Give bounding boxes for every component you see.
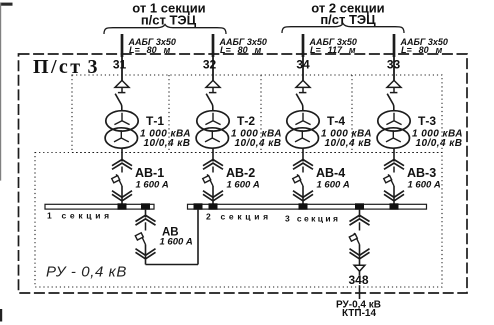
- busbar sections 2-3 (0.4 kV): [188, 204, 427, 209]
- svg-text:1 секция: 1 секция: [47, 211, 113, 221]
- draw-out contact (lower) of АВ-1: [112, 191, 132, 201]
- draw-out contact (lower) of АВ-2: [203, 191, 223, 201]
- wire: breaker АВ-2 to busbar: [212, 186, 214, 205]
- svg-text:Т-3: Т-3: [418, 114, 436, 128]
- transformer Т-3 1000 кВА 10/0,4 кВ: [377, 111, 410, 148]
- draw-out contact (upper) of АВ-4: [293, 160, 313, 170]
- brace grouping feeders 31 and 32: [104, 25, 226, 35]
- svg-text:АВ-1: АВ-1: [135, 166, 164, 180]
- draw-out contact (upper), feeder 348: [350, 215, 370, 225]
- busbar section 1 (0.4 kV): [45, 204, 154, 209]
- wire: incoming cable feeder 31: [121, 34, 124, 57]
- label: cable ААБГ 3х50 L= 80 м (feeder 31): [128, 37, 176, 55]
- transformer Т-2 1000 кВА 10/0,4 кВ: [196, 111, 229, 148]
- disconnector switch, feeder 34: [296, 94, 303, 111]
- svg-text:3 секция: 3 секция: [285, 214, 340, 224]
- cable termination (triangle) feeder 31: [115, 80, 129, 92]
- svg-text:1 600 А: 1 600 А: [136, 180, 169, 191]
- junction: outgoing feeder 348 on bus 3: [355, 203, 364, 209]
- svg-text:10/0,4 кВ: 10/0,4 кВ: [235, 138, 282, 149]
- svg-text:33: 33: [387, 58, 401, 72]
- РУ-0,4 кВ switchgear enclosure (dotted): [35, 153, 442, 288]
- bus tie circuit breaker АВ 1 600 А: [135, 233, 145, 245]
- svg-text:10/0,4 кВ: 10/0,4 кВ: [144, 138, 191, 149]
- substation П/ст 3 boundary (dashed): [19, 54, 468, 293]
- draw-out contact (upper) of АВ-3: [384, 160, 404, 170]
- wire: transformer Т-4 to breaker АВ-4: [302, 148, 304, 162]
- svg-text:п/ст ТЭЦ: п/ст ТЭЦ: [141, 13, 197, 28]
- transformer Т-4 1000 кВА 10/0,4 кВ: [286, 111, 319, 148]
- draw-out contact (upper) of tie breaker АВ: [136, 215, 156, 225]
- circuit breaker АВ-4 1 600 А: [293, 174, 303, 186]
- cable termination (triangle) feeder 32: [206, 80, 220, 92]
- circuit breaker АВ-3 1 600 А: [384, 174, 394, 186]
- label: cable ААБГ 3х50 L= 117 м (feeder 34): [309, 37, 357, 55]
- label: transformer rating 1 000 кВА / 10/0,4 кВ: [140, 129, 191, 150]
- svg-text:L= 80 м: L= 80 м: [129, 45, 171, 55]
- wire: bus 1 to tie breaker АВ: [145, 209, 147, 218]
- draw-out contact (lower) of tie breaker АВ: [136, 249, 156, 259]
- cable termination (triangle) feeder 34: [296, 80, 310, 92]
- label: cable ААБГ 3х50 L= 80 м (feeder 33): [400, 37, 448, 55]
- label: source "от 2 секции п/ст ТЭЦ": [311, 1, 384, 27]
- junction: bus tie АВ on bus 2: [194, 203, 203, 209]
- draw-out contact (upper) of АВ-1: [112, 160, 132, 170]
- svg-text:п/ст ТЭЦ: п/ст ТЭЦ: [320, 12, 376, 27]
- svg-text:Т-2: Т-2: [237, 114, 255, 128]
- wire: breaker АВ-4 to busbar: [302, 186, 304, 205]
- draw-out contact (lower) of АВ-4: [293, 191, 313, 201]
- svg-text:3: 3: [88, 56, 98, 78]
- junction: feeder АВ-2 to bus 2: [209, 203, 218, 209]
- wire: tie jumper horizontal run: [146, 264, 199, 266]
- svg-text:1 600 А: 1 600 А: [160, 237, 193, 248]
- wire: transformer Т-1 to breaker АВ-1: [121, 148, 123, 162]
- svg-text:АВ-4: АВ-4: [316, 166, 345, 180]
- draw-out contact (lower), feeder 348: [350, 249, 370, 259]
- wire: outgoing cable 348 to КТП-14: [359, 285, 361, 299]
- svg-text:348: 348: [348, 273, 368, 287]
- wire: incoming cable feeder 32: [212, 34, 215, 57]
- disconnector switch, feeder 33: [387, 94, 394, 111]
- bay divider between Т-4 and Т-3: [351, 75, 353, 153]
- label: transformer rating 1 000 кВА / 10/0,4 кВ: [231, 129, 282, 150]
- wire: incoming cable feeder 34: [302, 34, 305, 57]
- svg-text:2 секция: 2 секция: [206, 212, 272, 222]
- circuit breaker АВ-2 1 600 А: [203, 174, 213, 186]
- svg-text:10/0,4 кВ: 10/0,4 кВ: [325, 138, 372, 149]
- label: source "от 1 секции п/ст ТЭЦ": [132, 1, 205, 28]
- bay divider between Т-1 and Т-2: [168, 75, 170, 153]
- label: cable ААБГ 3х50 L= 80 м (feeder 32): [219, 37, 267, 55]
- svg-text:L= 117 м: L= 117 м: [310, 45, 356, 55]
- svg-text:10/0,4 кВ: 10/0,4 кВ: [416, 138, 463, 149]
- circuit breaker АВ-1 1 600 А: [112, 174, 122, 186]
- draw-out contact (lower) of АВ-3: [384, 191, 404, 201]
- junction: bus tie АВ on bus 1: [141, 203, 150, 209]
- svg-text:1 600 А: 1 600 А: [227, 180, 260, 191]
- bay divider between Т-2 and Т-4: [260, 75, 262, 153]
- label: РУ-0,4 кВ КТП-14: [336, 300, 381, 320]
- svg-text:РУ - 0,4 кВ: РУ - 0,4 кВ: [46, 264, 127, 281]
- junction: feeder АВ-3 to bus 3: [390, 203, 399, 209]
- wire: incoming cable feeder 33: [393, 34, 396, 57]
- svg-text:АВ-3: АВ-3: [407, 166, 436, 180]
- wire: tie jumper up to bus 2: [197, 209, 199, 265]
- wire: breaker АВ-1 to busbar: [121, 186, 123, 205]
- wire: breaker АВ-3 to busbar: [393, 186, 395, 205]
- svg-text:Т-4: Т-4: [327, 114, 345, 128]
- cable termination (triangle down), feeder 348: [354, 265, 365, 271]
- cable termination (triangle) feeder 33: [387, 80, 401, 92]
- disconnector switch, feeder 31: [115, 94, 122, 111]
- junction: feeder АВ-4 to bus 3: [299, 203, 308, 209]
- wire: tie breaker АВ down to jumper: [145, 245, 147, 265]
- svg-text:1 600 А: 1 600 А: [317, 180, 350, 191]
- svg-text:АВ-2: АВ-2: [226, 166, 255, 180]
- wire: breaker to cable termination, feeder 348: [359, 245, 361, 266]
- svg-text:31: 31: [113, 58, 127, 72]
- junction: feeder АВ-1 to bus 1: [118, 203, 127, 209]
- brace grouping feeders 34 and 33: [282, 24, 404, 34]
- draw-out contact (upper) of АВ-2: [203, 160, 223, 170]
- wire: transformer Т-2 to breaker АВ-2: [212, 148, 214, 162]
- wire: transformer Т-3 to breaker АВ-3: [393, 148, 395, 162]
- label: transformer rating 1 000 кВА / 10/0,4 кВ: [412, 129, 463, 150]
- 10 kV transformer bay enclosure (dotted): [72, 75, 442, 153]
- transformer Т-1 1000 кВА 10/0,4 кВ: [105, 111, 138, 148]
- label: transformer rating 1 000 кВА / 10/0,4 кВ: [321, 129, 372, 150]
- svg-text:1 600 А: 1 600 А: [408, 180, 441, 191]
- disconnector switch, feeder 32: [206, 94, 213, 111]
- svg-text:34: 34: [296, 58, 310, 72]
- svg-text:П/ст: П/ст: [33, 56, 82, 78]
- svg-text:Т-1: Т-1: [146, 114, 164, 128]
- svg-text:L= 80 м: L= 80 м: [220, 45, 262, 55]
- svg-text:32: 32: [203, 58, 217, 72]
- svg-text:КТП-14: КТП-14: [342, 308, 377, 319]
- circuit breaker, outgoing feeder 348: [349, 233, 359, 245]
- svg-text:L= 80 м: L= 80 м: [401, 45, 443, 55]
- wire: bus 3 to outgoing breaker (feeder 348): [359, 209, 361, 218]
